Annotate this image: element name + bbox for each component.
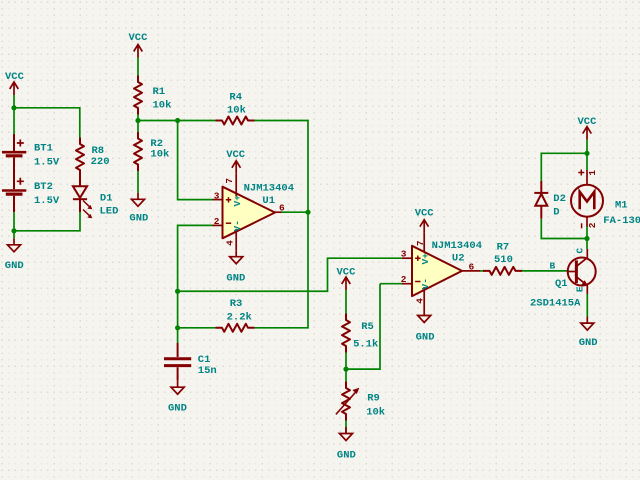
wire U1 pin2 down to C1: [178, 225, 213, 343]
VCC arrow (U2): [420, 220, 429, 233]
LED D1 light arrows: [83, 201, 92, 219]
svg-text:7: 7: [224, 178, 235, 184]
M1 pin name +: [578, 170, 584, 176]
resistor R7: [483, 267, 522, 275]
svg-text:510: 510: [494, 254, 513, 266]
svg-text:NJM13404: NJM13404: [432, 240, 482, 252]
svg-text:V-: V-: [420, 278, 431, 289]
VCC arrow (battery): [10, 82, 19, 95]
svg-text:FA-130: FA-130: [603, 215, 640, 227]
wire to U2 pin2: [380, 283, 402, 285]
junction R3 row: [175, 325, 180, 330]
svg-text:1.5V: 1.5V: [34, 195, 60, 207]
op-amp U2: [412, 246, 462, 296]
svg-text:B: B: [550, 261, 556, 272]
motor M1: [571, 170, 603, 227]
junction VCC-D2-M1: [584, 151, 589, 156]
U1 pin 6 line: [275, 211, 282, 213]
svg-text:4: 4: [224, 240, 235, 246]
wire R7 to Q1 base: [522, 270, 568, 272]
plus mark BT2: [17, 178, 24, 185]
wire node top rail to R8: [14, 108, 80, 138]
svg-text:GND: GND: [226, 273, 245, 285]
ground (C1): [171, 381, 184, 395]
svg-text:D1: D1: [100, 193, 113, 205]
svg-text:VCC: VCC: [129, 32, 149, 44]
svg-text:15n: 15n: [198, 365, 217, 377]
resistor R2: [134, 132, 142, 171]
svg-text:C: C: [574, 247, 585, 253]
wire BT2 to GND: [13, 212, 15, 238]
diode D2: [534, 181, 548, 219]
svg-text:LED: LED: [100, 205, 119, 217]
VCC arrow (U1): [232, 161, 241, 174]
svg-text:VCC: VCC: [5, 71, 25, 83]
wire R5 to R9: [345, 353, 347, 382]
junction M1-D2-Q1: [584, 236, 589, 241]
svg-text:1: 1: [587, 170, 598, 176]
svg-text:R3: R3: [230, 298, 243, 310]
svg-text:10k: 10k: [366, 406, 385, 418]
junction R5-R9: [343, 367, 348, 372]
ground (U1): [230, 250, 243, 264]
svg-text:R5: R5: [361, 321, 374, 333]
U1 + input mark: [226, 197, 231, 202]
svg-text:E: E: [575, 286, 586, 292]
wire R9 to GND: [345, 421, 347, 434]
wire R2 to GND: [137, 171, 139, 193]
svg-text:10k: 10k: [150, 149, 169, 161]
R9 wiper arrow: [336, 388, 360, 415]
svg-text:V-: V-: [232, 220, 243, 231]
svg-text:6: 6: [469, 262, 475, 273]
wire emitter to ground: [586, 294, 588, 317]
U2 - input mark: [415, 281, 420, 283]
wire node to R4: [138, 120, 216, 122]
junction battery bottom: [11, 228, 16, 233]
junction U1 output: [305, 210, 310, 215]
ground (Q1): [581, 317, 594, 331]
resistor R8: [76, 138, 84, 177]
U2 + input mark: [415, 256, 420, 261]
ground (R2): [132, 193, 145, 207]
svg-text:D2: D2: [553, 193, 566, 205]
wire U2 pin2 down to R5/R9 node: [346, 284, 380, 369]
svg-text:R1: R1: [153, 86, 166, 98]
svg-text:GND: GND: [579, 337, 598, 349]
capacitor C1: [164, 343, 191, 381]
svg-text:D: D: [553, 207, 559, 219]
VCC arrow (M1): [583, 127, 592, 140]
transistor Q1: [568, 249, 596, 294]
svg-text:GND: GND: [168, 403, 187, 415]
U1 pin 2 line: [213, 224, 223, 226]
wire node to R2: [137, 121, 139, 133]
svg-text:BT1: BT1: [34, 143, 53, 155]
wire U1 output: [282, 211, 309, 213]
svg-text:10k: 10k: [153, 99, 172, 111]
svg-text:U2: U2: [452, 252, 465, 264]
wire R4 to feedback column to R3: [255, 121, 309, 328]
VCC arrow (R1): [134, 45, 143, 58]
svg-text:VCC: VCC: [415, 208, 435, 220]
svg-text:2.2k: 2.2k: [227, 311, 252, 323]
svg-text:V+: V+: [420, 253, 431, 265]
ground (R9): [340, 427, 353, 441]
op-amp U1: [223, 187, 276, 239]
svg-text:R4: R4: [229, 92, 242, 104]
U1 pin 3 line: [213, 199, 223, 201]
U2 pin 2 line: [402, 283, 412, 285]
svg-text:NJM13404: NJM13404: [244, 183, 294, 195]
wire to D2 top: [541, 153, 587, 181]
wire U2 out to R7: [480, 270, 484, 272]
svg-text:5.1k: 5.1k: [353, 339, 378, 351]
resistor R4: [216, 117, 255, 125]
wire M1 bottom to Q1 collector: [586, 226, 588, 249]
svg-text:GND: GND: [129, 213, 148, 225]
LED D1: [73, 177, 87, 213]
svg-text:2: 2: [401, 274, 407, 285]
junction R1-R2: [135, 118, 140, 123]
wire feedback to U2 pin3: [178, 258, 402, 291]
resistor R3: [216, 324, 255, 332]
svg-text:3: 3: [214, 190, 220, 201]
svg-text:7: 7: [415, 240, 426, 246]
wire VCC to R5: [345, 290, 347, 314]
wire VCC to M1: [586, 140, 588, 170]
svg-text:1.5V: 1.5V: [34, 156, 60, 168]
ground (U2): [418, 309, 431, 323]
M1 pin name -: [581, 223, 583, 228]
wire bottom rail battery-LED: [14, 212, 80, 231]
ground (battery): [8, 238, 21, 252]
U1 pin 4 line: [235, 229, 237, 250]
wire node to R3: [178, 327, 216, 329]
U2 pin 4 line: [423, 287, 425, 309]
battery BT1: [2, 134, 26, 189]
resistor R1: [134, 76, 142, 115]
U1 - input mark: [226, 222, 231, 224]
svg-text:VCC: VCC: [226, 149, 246, 161]
junction feedback row: [175, 289, 180, 294]
svg-text:GND: GND: [416, 331, 435, 343]
svg-text:VCC: VCC: [337, 266, 357, 278]
wire R1 to node: [137, 115, 139, 121]
svg-text:M1: M1: [615, 200, 628, 212]
U2 pin 3 line: [402, 257, 412, 259]
junction R4 row / U1 column: [175, 118, 180, 123]
wire divider to U1 pin3: [178, 121, 213, 200]
wire VCC to BT1: [13, 95, 15, 134]
svg-text:R7: R7: [497, 241, 510, 253]
svg-text:220: 220: [91, 156, 110, 168]
svg-text:10k: 10k: [227, 105, 246, 117]
svg-text:VCC: VCC: [578, 116, 598, 128]
resistor R9 (variable): [342, 382, 350, 421]
U1 pin 7 line: [235, 174, 237, 197]
svg-text:U1: U1: [262, 195, 275, 207]
svg-text:GND: GND: [5, 260, 24, 272]
svg-text:Q1: Q1: [555, 278, 568, 290]
svg-text:GND: GND: [337, 450, 356, 462]
svg-text:BT2: BT2: [34, 181, 53, 193]
U2 pin 7 line: [423, 233, 425, 253]
battery BT2: [2, 191, 26, 213]
svg-text:3: 3: [401, 249, 407, 260]
wire VCC to R1: [137, 58, 139, 77]
resistor R5: [342, 314, 350, 353]
VCC arrow (R5): [342, 277, 351, 290]
svg-text:2SD1415A: 2SD1415A: [530, 298, 581, 310]
svg-text:R9: R9: [367, 392, 380, 404]
plus mark BT1: [17, 140, 24, 147]
svg-text:V+: V+: [232, 195, 243, 207]
wire D2 bottom to node: [541, 219, 587, 239]
svg-text:2: 2: [214, 216, 220, 227]
svg-text:2: 2: [587, 222, 598, 228]
U2 pin 6 line: [462, 270, 480, 272]
svg-text:4: 4: [415, 298, 426, 304]
junction battery top: [11, 105, 16, 110]
